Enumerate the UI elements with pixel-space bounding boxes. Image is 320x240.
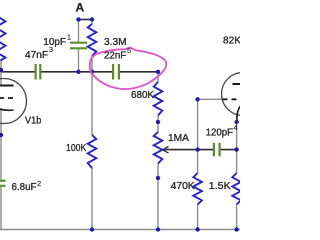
svg-text:A: A: [76, 1, 85, 15]
svg-text:2: 2: [37, 179, 41, 188]
svg-text:3.3M: 3.3M: [104, 37, 127, 48]
svg-text:V1b: V1b: [25, 116, 42, 127]
svg-text:100K: 100K: [66, 143, 86, 154]
svg-text:680K: 680K: [131, 90, 154, 101]
svg-text:4: 4: [233, 123, 237, 132]
svg-text:3: 3: [49, 45, 53, 54]
svg-text:47nF: 47nF: [25, 50, 48, 61]
svg-text:120pF: 120pF: [206, 127, 233, 138]
svg-text:1MA: 1MA: [168, 133, 189, 144]
svg-text:10pF: 10pF: [43, 37, 66, 48]
svg-text:5: 5: [127, 46, 131, 55]
svg-text:1.5K: 1.5K: [209, 181, 231, 192]
svg-text:22nF: 22nF: [104, 51, 126, 62]
svg-text:6.8uF: 6.8uF: [12, 182, 37, 193]
svg-text:1: 1: [67, 32, 71, 41]
svg-text:82K: 82K: [223, 36, 240, 47]
svg-text:470K: 470K: [171, 181, 195, 192]
